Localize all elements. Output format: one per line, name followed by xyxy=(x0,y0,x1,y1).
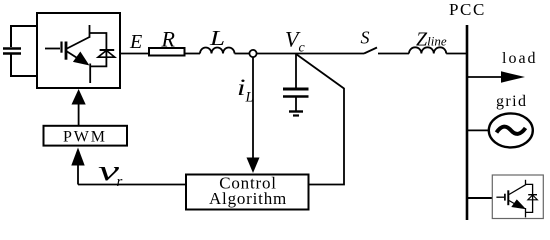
label v_r xyxy=(98,155,123,190)
arrow into PWM xyxy=(71,148,84,166)
svg-text:PCC: PCC xyxy=(449,0,486,19)
dc-link capacitor wire bottom xyxy=(11,54,37,76)
node junction xyxy=(249,50,256,57)
wire L to node xyxy=(235,53,250,55)
PCC bus xyxy=(466,25,469,220)
svg-text:PWM: PWM xyxy=(63,129,107,146)
inductor Z_line xyxy=(409,47,446,53)
wire vr horizontal xyxy=(78,184,186,186)
converter branch wire xyxy=(467,197,492,199)
control algorithm box xyxy=(186,175,309,210)
wire PWM to inverter xyxy=(78,103,80,125)
svg-text:i: i xyxy=(237,75,246,100)
inductor L xyxy=(200,48,235,54)
capacitor C xyxy=(283,89,309,97)
IGBT Q2 emitter with arrow xyxy=(509,200,526,218)
IGBT Q2 collector xyxy=(509,180,526,195)
ground xyxy=(289,97,303,116)
converter box xyxy=(492,175,543,219)
svg-text:Algorithm: Algorithm xyxy=(209,189,287,208)
diode D2 branch xyxy=(526,184,538,212)
PWM box xyxy=(44,126,128,146)
wire i_L sense xyxy=(252,57,254,159)
AC source xyxy=(489,113,533,147)
svg-text:r: r xyxy=(117,174,123,190)
wire R to L xyxy=(185,53,201,55)
svg-text:E: E xyxy=(129,31,142,53)
capacitor C wire xyxy=(295,54,297,88)
IGBT Q1 collector xyxy=(67,25,90,49)
wire Zline to bus xyxy=(446,53,467,55)
load branch wire xyxy=(467,76,503,78)
wire node to switch xyxy=(257,53,364,55)
svg-text:load: load xyxy=(502,50,538,67)
label Control Algorithm xyxy=(209,173,287,207)
load arrow xyxy=(501,71,525,82)
IGBT Q1 gate xyxy=(45,42,66,60)
diode D1 branch xyxy=(90,33,115,66)
switch S xyxy=(364,48,377,54)
resistor R xyxy=(149,48,185,56)
IGBT Q2 gate xyxy=(496,190,508,205)
arrow into inverter xyxy=(72,89,86,105)
svg-text:L: L xyxy=(209,26,225,50)
dc-link capacitor wire top xyxy=(11,26,37,47)
wire switch to Zline xyxy=(378,53,409,55)
svg-text:S: S xyxy=(361,28,370,48)
wire E xyxy=(120,53,149,55)
arrow into control algorithm xyxy=(247,158,260,174)
svg-text:R: R xyxy=(161,26,176,51)
svg-text:grid: grid xyxy=(496,93,527,110)
label i_L xyxy=(237,75,254,106)
sense wire V_c to control xyxy=(296,54,344,185)
inverter box xyxy=(37,13,120,88)
IGBT Q1 emitter with arrow xyxy=(67,52,90,84)
dc-link capacitor xyxy=(3,49,21,54)
wire vr vertical xyxy=(77,165,79,185)
grid branch wire xyxy=(467,129,489,131)
